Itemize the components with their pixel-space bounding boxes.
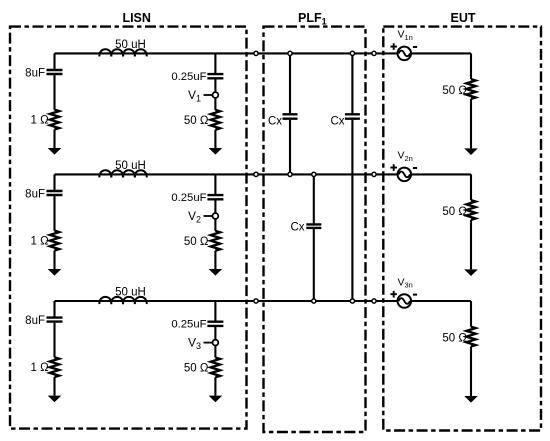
capacitor Cx A (row1-row2) <box>283 114 298 118</box>
wire row3 0.25uF top lead <box>214 301 216 321</box>
wire Cx B bottom segment <box>313 229 315 301</box>
svg-text:LISN: LISN <box>122 11 150 25</box>
wire row3 EUT vertical lead <box>470 301 472 327</box>
node row1 Cx C junction <box>350 51 354 55</box>
label plus sign V3n <box>390 291 397 298</box>
LISN section box <box>10 27 247 429</box>
wire row1 EUT to ground <box>470 99 472 148</box>
node row2 Cx B junction <box>312 172 316 176</box>
label minus sign V2n <box>413 167 417 169</box>
svg-text:50 Ω: 50 Ω <box>184 115 209 127</box>
wire row2 0.25uF top lead <box>214 174 216 194</box>
capacitor 8uF row1 <box>47 70 63 74</box>
wire row3 left horizontal <box>55 300 149 302</box>
wire row1 EUT vertical lead <box>470 53 472 79</box>
svg-text:0.25uF: 0.25uF <box>171 192 206 204</box>
node row3 Cx C junction <box>350 299 354 303</box>
node row3 PLF-EUT boundary <box>372 299 376 303</box>
capacitor 8uF row3 <box>47 318 63 322</box>
ground row2 LISN right <box>209 269 223 276</box>
svg-text:8uF: 8uF <box>25 67 45 79</box>
svg-text:V1n: V1n <box>398 29 413 42</box>
capacitor 0.25uF row3 <box>207 322 223 326</box>
capacitor 0.25uF row1 <box>207 74 223 78</box>
node row1 PLF-EUT boundary <box>372 51 376 55</box>
ground row2 left <box>48 269 62 276</box>
ground row2 EUT <box>464 269 478 276</box>
wire row3 V3 node to 50ohm <box>214 346 216 358</box>
wire Cx C bottom segment <box>351 120 353 301</box>
svg-text:8uF: 8uF <box>25 188 45 200</box>
wire row1 main horizontal <box>147 52 398 54</box>
wire row2 left horizontal <box>55 173 149 175</box>
PLF1 section box <box>264 27 366 432</box>
svg-text:50 uH: 50 uH <box>115 287 146 299</box>
wire row1 EUT horizontal <box>411 52 471 54</box>
wire V2 label tick <box>204 215 213 217</box>
svg-text:Cx: Cx <box>290 222 304 234</box>
svg-text:V2n: V2n <box>398 150 413 163</box>
wire row2 50ohm to ground <box>214 251 216 269</box>
wire row3 8uF to 1ohm <box>53 323 55 358</box>
label plus sign V1n <box>390 43 397 50</box>
inductor L2 50 uH <box>99 170 146 177</box>
capacitor 8uF row2 <box>47 191 63 195</box>
svg-text:1 Ω: 1 Ω <box>31 362 50 374</box>
resistor 50 ohm LISN row1 <box>211 110 220 130</box>
svg-text:V3: V3 <box>188 336 201 352</box>
svg-text:50 uH: 50 uH <box>115 160 146 172</box>
resistor 1 ohm row1 <box>50 110 59 130</box>
wire V1 label tick <box>204 94 213 96</box>
svg-text:EUT: EUT <box>451 11 476 25</box>
resistor 50 ohm EUT row3 <box>466 327 475 347</box>
svg-text:50 Ω: 50 Ω <box>442 85 467 97</box>
svg-text:PLF1: PLF1 <box>298 11 327 27</box>
wire row2 main horizontal <box>147 173 398 175</box>
ground row3 LISN right <box>209 396 223 403</box>
wire row2 EUT horizontal <box>411 173 471 175</box>
svg-text:1 Ω: 1 Ω <box>31 114 50 126</box>
inductor L1 50 uH <box>99 49 146 56</box>
node row3 LISN-PLF boundary <box>254 299 258 303</box>
wire row1 left horizontal <box>55 52 149 54</box>
node V2 terminal <box>213 213 219 219</box>
label plus sign V2n <box>390 164 397 171</box>
node row3 Cx B junction <box>312 299 316 303</box>
label minus sign V1n <box>413 46 417 48</box>
svg-text:50 Ω: 50 Ω <box>184 363 209 375</box>
svg-text:V1: V1 <box>188 88 201 104</box>
wire row2 EUT vertical lead <box>470 174 472 200</box>
wire Cx C top segment <box>351 53 353 113</box>
wire row3 EUT horizontal <box>411 300 471 302</box>
wire row1 8uF to 1ohm <box>53 75 55 110</box>
wire row2 8uF top lead <box>53 174 55 190</box>
resistor 50 ohm EUT row1 <box>466 79 475 99</box>
capacitor 0.25uF row2 <box>207 195 223 199</box>
wire row3 50ohm to ground <box>214 377 216 395</box>
wire row1 1ohm to ground <box>53 130 55 149</box>
node row2 PLF-EUT boundary <box>372 172 376 176</box>
svg-text:0.25uF: 0.25uF <box>171 319 206 331</box>
ground row1 left <box>48 148 62 155</box>
capacitor Cx B (row2-row3) <box>306 224 321 228</box>
node V1 terminal <box>213 92 219 98</box>
wire Cx B top segment <box>313 174 315 223</box>
svg-text:50 Ω: 50 Ω <box>442 206 467 218</box>
label minus sign V3n <box>413 294 417 296</box>
ground row1 EUT <box>464 148 478 155</box>
svg-text:Cx: Cx <box>330 116 344 128</box>
resistor 50 ohm LISN row3 <box>211 358 220 378</box>
inductor L3 50 uH <box>99 297 146 304</box>
svg-text:8uF: 8uF <box>25 315 45 327</box>
node row1 Cx A junction <box>288 51 292 55</box>
svg-text:50 Ω: 50 Ω <box>442 333 467 345</box>
wire Cx A bottom segment <box>289 120 291 175</box>
svg-text:V2: V2 <box>188 209 201 225</box>
wire row3 EUT to ground <box>470 347 472 397</box>
node row2 Cx A junction <box>288 172 292 176</box>
node V3 terminal <box>213 340 219 346</box>
voltage source V3n <box>398 294 412 308</box>
wire row1 50ohm to ground <box>214 130 216 148</box>
wire row2 8uF to 1ohm <box>53 196 55 231</box>
wire row1 cap to V1 node <box>214 79 216 92</box>
svg-text:1 Ω: 1 Ω <box>31 235 50 247</box>
capacitor Cx C (row1-row3) <box>345 114 360 118</box>
wire row3 8uF top lead <box>53 301 55 317</box>
wire row1 8uF top lead <box>53 53 55 69</box>
resistor 50 ohm EUT row2 <box>466 200 475 220</box>
node row2 LISN-PLF boundary <box>254 172 258 176</box>
svg-text:50 Ω: 50 Ω <box>184 236 209 248</box>
wire row3 main horizontal <box>147 300 398 302</box>
resistor 1 ohm row2 <box>50 231 59 251</box>
svg-text:50 uH: 50 uH <box>115 39 146 51</box>
wire row2 1ohm to ground <box>53 251 55 270</box>
wire row1 0.25uF top lead <box>214 53 216 73</box>
resistor 50 ohm LISN row2 <box>211 231 220 251</box>
wire row1 V1 node to 50ohm <box>214 98 216 110</box>
EUT section box <box>383 27 541 431</box>
wire row3 cap to V3 node <box>214 327 216 340</box>
svg-text:0.25uF: 0.25uF <box>171 71 206 83</box>
ground row3 EUT <box>464 396 478 403</box>
wire row2 EUT to ground <box>470 220 472 270</box>
wire Cx A top segment <box>289 53 291 113</box>
svg-text:Cx: Cx <box>268 116 282 128</box>
wire row2 V2 node to 50ohm <box>214 219 216 231</box>
ground row1 LISN right <box>209 148 223 155</box>
voltage source V1n <box>398 47 412 61</box>
wire row2 cap to V2 node <box>214 200 216 213</box>
wire V3 label tick <box>204 342 213 344</box>
resistor 1 ohm row3 <box>50 357 59 377</box>
voltage source V2n <box>398 168 412 182</box>
svg-text:V3n: V3n <box>398 276 413 289</box>
ground row3 left <box>48 396 62 403</box>
wire row3 1ohm to ground <box>53 377 55 396</box>
node row1 LISN-PLF boundary <box>254 51 258 55</box>
